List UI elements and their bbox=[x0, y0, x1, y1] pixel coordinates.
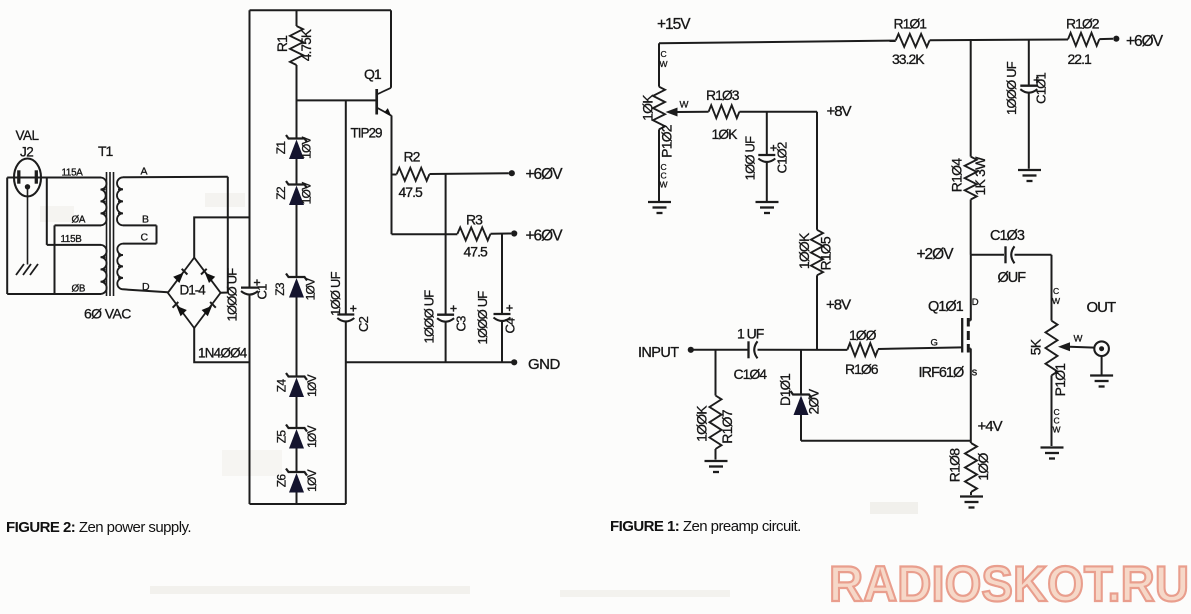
svg-text:W: W bbox=[1053, 425, 1061, 435]
svg-text:47.5: 47.5 bbox=[399, 184, 423, 200]
svg-text:Z3: Z3 bbox=[273, 282, 287, 296]
svg-text:Q1Ø1: Q1Ø1 bbox=[928, 299, 964, 315]
svg-text:1ØØ: 1ØØ bbox=[849, 327, 877, 343]
svg-text:4.75K: 4.75K bbox=[299, 29, 314, 61]
svg-text:C4: C4 bbox=[502, 318, 517, 334]
svg-text:+2ØV: +2ØV bbox=[917, 246, 955, 263]
svg-text:2ØV: 2ØV bbox=[807, 389, 822, 414]
svg-text:R1Ø5: R1Ø5 bbox=[818, 236, 834, 270]
svg-text:W: W bbox=[660, 180, 668, 190]
svg-text:D1Ø1: D1Ø1 bbox=[778, 374, 793, 406]
svg-text:5K: 5K bbox=[1028, 338, 1044, 355]
svg-text:1ØØ: 1ØØ bbox=[975, 453, 991, 481]
svg-text:22.1: 22.1 bbox=[1068, 51, 1092, 67]
svg-text:Z4: Z4 bbox=[275, 379, 289, 393]
svg-text:Z5: Z5 bbox=[275, 430, 289, 444]
svg-text:1ØK: 1ØK bbox=[712, 126, 739, 142]
svg-text:+6ØV: +6ØV bbox=[526, 166, 564, 183]
svg-text:1K 3W: 1K 3W bbox=[972, 156, 988, 196]
svg-text:1ØØ UF: 1ØØ UF bbox=[328, 271, 343, 315]
svg-text:FIGURE 2: Zen power supply.: FIGURE 2: Zen power supply. bbox=[6, 519, 191, 536]
svg-text:W: W bbox=[1074, 334, 1083, 345]
svg-text:C3: C3 bbox=[453, 316, 468, 332]
svg-text:+8V: +8V bbox=[827, 103, 852, 120]
svg-text:1ØØØ UF: 1ØØØ UF bbox=[475, 291, 490, 345]
svg-text:Z2: Z2 bbox=[274, 186, 288, 200]
svg-text:Q1: Q1 bbox=[364, 66, 382, 82]
svg-text:R1Ø8: R1Ø8 bbox=[947, 448, 963, 482]
svg-text:1ØØØ UF: 1ØØØ UF bbox=[421, 290, 436, 344]
svg-text:INPUT: INPUT bbox=[638, 345, 679, 361]
svg-text:R1Ø1: R1Ø1 bbox=[894, 16, 928, 32]
svg-text:ØB: ØB bbox=[72, 284, 86, 295]
svg-text:R1: R1 bbox=[274, 35, 290, 52]
svg-text:s: s bbox=[972, 367, 978, 379]
svg-text:C1Ø3: C1Ø3 bbox=[990, 228, 1025, 244]
svg-text:J2: J2 bbox=[20, 145, 33, 160]
svg-text:R1Ø3: R1Ø3 bbox=[706, 87, 740, 103]
svg-text:+6ØV: +6ØV bbox=[1126, 33, 1164, 50]
svg-text:Z6: Z6 bbox=[275, 474, 289, 488]
svg-text:ØA: ØA bbox=[72, 215, 86, 226]
svg-text:115A: 115A bbox=[62, 168, 84, 179]
svg-text:A: A bbox=[141, 166, 148, 178]
svg-text:FIGURE 1: Zen preamp circuit.: FIGURE 1: Zen preamp circuit. bbox=[610, 518, 801, 535]
svg-text:1ØØK: 1ØØK bbox=[694, 405, 710, 442]
svg-text:R1Ø4: R1Ø4 bbox=[949, 158, 965, 192]
svg-text:RADIOSKOT.RU: RADIOSKOT.RU bbox=[829, 556, 1189, 612]
svg-text:B: B bbox=[142, 214, 149, 226]
svg-text:1ØV: 1ØV bbox=[305, 374, 319, 396]
svg-text:OUT: OUT bbox=[1087, 299, 1117, 316]
svg-text:1ØK: 1ØK bbox=[640, 94, 656, 121]
svg-text:C1Ø2: C1Ø2 bbox=[774, 142, 789, 173]
svg-text:1ØØK: 1ØØK bbox=[796, 232, 812, 269]
svg-text:1N4ØØ4: 1N4ØØ4 bbox=[198, 346, 248, 361]
svg-text:W: W bbox=[680, 100, 689, 111]
svg-text:P1Ø2: P1Ø2 bbox=[659, 124, 675, 158]
svg-text:1ØØ UF: 1ØØ UF bbox=[742, 136, 757, 180]
svg-text:1ØV: 1ØV bbox=[304, 278, 318, 300]
svg-text:R1Ø6: R1Ø6 bbox=[845, 361, 879, 377]
svg-text:1 UF: 1 UF bbox=[737, 326, 764, 342]
svg-text:C1Ø4: C1Ø4 bbox=[734, 366, 768, 382]
svg-text:1ØV: 1ØV bbox=[305, 425, 319, 447]
svg-text:ØUF: ØUF bbox=[998, 270, 1027, 286]
svg-text:+15V: +15V bbox=[657, 16, 691, 33]
svg-text:R1Ø7: R1Ø7 bbox=[719, 409, 735, 443]
svg-text:33.2K: 33.2K bbox=[892, 51, 925, 67]
svg-text:+4V: +4V bbox=[978, 418, 1003, 435]
svg-text:C2: C2 bbox=[356, 316, 371, 332]
svg-text:D1-4: D1-4 bbox=[180, 283, 207, 298]
svg-text:6Ø VAC: 6Ø VAC bbox=[84, 306, 131, 322]
svg-text:47.5: 47.5 bbox=[464, 244, 488, 260]
svg-text:W: W bbox=[1052, 296, 1060, 306]
svg-text:Z1: Z1 bbox=[274, 141, 288, 155]
svg-text:1ØØØ UF: 1ØØØ UF bbox=[225, 268, 240, 322]
svg-text:T1: T1 bbox=[98, 143, 114, 159]
svg-text:VAL: VAL bbox=[16, 128, 40, 143]
svg-text:1ØV: 1ØV bbox=[300, 182, 314, 204]
svg-text:R1Ø2: R1Ø2 bbox=[1066, 16, 1100, 32]
svg-text:G: G bbox=[931, 338, 938, 349]
svg-text:1ØV: 1ØV bbox=[300, 136, 314, 158]
svg-text:R3: R3 bbox=[466, 212, 483, 228]
svg-text:115B: 115B bbox=[61, 234, 83, 245]
svg-text:C: C bbox=[661, 49, 667, 59]
svg-text:C: C bbox=[1053, 286, 1059, 296]
svg-text:1ØØØ UF: 1ØØØ UF bbox=[1004, 61, 1019, 115]
svg-text:+8V: +8V bbox=[826, 297, 851, 314]
svg-text:P1Ø1: P1Ø1 bbox=[1052, 363, 1068, 397]
svg-text:W: W bbox=[660, 59, 668, 69]
svg-text:GND: GND bbox=[528, 356, 561, 373]
svg-text:TIP29: TIP29 bbox=[351, 126, 383, 141]
svg-text:R2: R2 bbox=[404, 149, 421, 165]
svg-text:1ØV: 1ØV bbox=[305, 469, 319, 491]
svg-text:C1Ø1: C1Ø1 bbox=[1033, 73, 1048, 104]
svg-text:C1: C1 bbox=[254, 284, 269, 300]
svg-text:IRF61Ø: IRF61Ø bbox=[919, 365, 964, 381]
svg-text:D: D bbox=[972, 297, 979, 308]
svg-text:+6ØV: +6ØV bbox=[526, 228, 564, 245]
